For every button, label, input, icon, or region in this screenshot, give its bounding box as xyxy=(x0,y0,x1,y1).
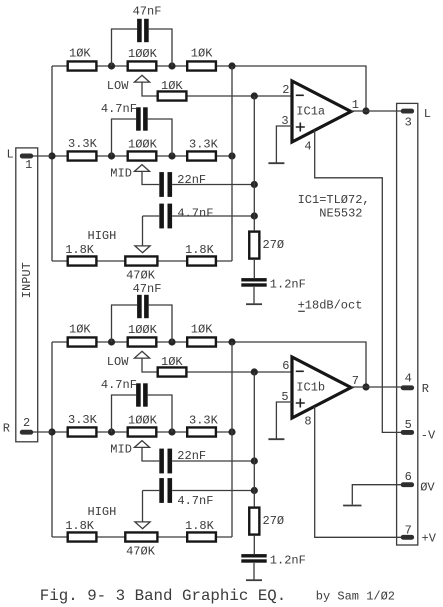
svg-text:1ØK: 1ØK xyxy=(161,79,183,93)
resistor 3.3K MID left xyxy=(68,427,97,436)
ground xyxy=(268,438,284,440)
capacitor 1.2nF xyxy=(241,554,266,557)
svg-text:3: 3 xyxy=(405,115,412,129)
wire: 4.7nF right xyxy=(148,119,172,156)
svg-text:3.3K: 3.3K xyxy=(68,413,98,427)
svg-text:3.3K: 3.3K xyxy=(189,137,219,151)
node: LOW row / bus1 xyxy=(228,338,235,345)
svg-text:1: 1 xyxy=(352,98,359,112)
svg-text:2: 2 xyxy=(282,83,289,97)
MID pot wiper arrow xyxy=(134,165,149,172)
svg-text:NE5532: NE5532 xyxy=(319,206,362,220)
wire: HIGH row xyxy=(52,536,232,538)
resistor 10K feedback xyxy=(158,367,187,376)
ground 0V xyxy=(343,505,361,507)
HIGH pot wiper arrow xyxy=(135,522,150,529)
ground xyxy=(246,579,262,581)
pot 470K HIGH xyxy=(125,532,157,541)
svg-text:4.7nF: 4.7nF xyxy=(177,494,213,508)
op-amp IC1b xyxy=(292,357,351,418)
wire: MID wiper to 22nF xyxy=(142,447,159,461)
wire: output to connector xyxy=(351,386,401,388)
svg-text:1ØØK: 1ØØK xyxy=(128,138,158,152)
node: input pin / bus xyxy=(48,428,55,435)
svg-text:ØV: ØV xyxy=(420,480,435,494)
node: LOW pot right xyxy=(168,62,175,69)
resistor 10K LOW right xyxy=(187,61,216,70)
wire: wiper to inverting input xyxy=(142,358,292,372)
node: MID row / bus1 xyxy=(228,428,235,435)
svg-text:LOW: LOW xyxy=(107,79,129,93)
svg-text:47ØK: 47ØK xyxy=(126,545,156,559)
capacitor 22nF xyxy=(159,449,164,474)
wire: HIGH wiper stem xyxy=(142,491,144,523)
node: MID pot left xyxy=(108,428,115,435)
wire: non-inv input to ground xyxy=(276,402,292,439)
capacitor 22nF xyxy=(159,172,164,197)
svg-text:1ØK: 1ØK xyxy=(191,322,213,336)
pot 100K MID xyxy=(128,151,157,160)
wire: pin1 to bus xyxy=(33,155,52,157)
wire: 47nF left xyxy=(112,29,138,66)
node: LOW pot right xyxy=(168,338,175,345)
non-inverting mark xyxy=(296,399,305,408)
svg-text:4.7nF: 4.7nF xyxy=(177,206,213,220)
node: LOW row / bus1 xyxy=(228,62,235,69)
LOW pot wiper arrow xyxy=(134,351,149,358)
wire: HIGH row xyxy=(52,260,232,262)
pot 470K HIGH xyxy=(125,256,157,265)
svg-text:HIGH: HIGH xyxy=(88,505,117,519)
svg-text:5: 5 xyxy=(405,418,412,432)
wire: 4.7nF to bus2 xyxy=(172,490,254,492)
capacitor 47nF xyxy=(137,19,142,42)
resistor 1.8K HIGH left xyxy=(68,532,97,541)
svg-text:1: 1 xyxy=(25,158,32,172)
svg-text:4.7nF: 4.7nF xyxy=(101,378,137,392)
wire: 4.7nF left xyxy=(112,119,137,156)
svg-text:1ØK: 1ØK xyxy=(191,46,213,60)
node: virtual-ground bus2 top xyxy=(251,92,258,99)
resistor 3.3K MID left xyxy=(68,151,97,160)
capacitor 47nF xyxy=(137,295,142,318)
pin 4 (R out) xyxy=(401,385,414,390)
wire: IC1a pin4 (V-) down to -V pin xyxy=(315,130,401,432)
svg-text:22nF: 22nF xyxy=(177,173,206,187)
svg-text:by Sam 1/Ø2: by Sam 1/Ø2 xyxy=(316,590,395,604)
node: LOW pot left xyxy=(108,338,115,345)
svg-text:1.8K: 1.8K xyxy=(65,243,95,257)
pin 2 (R in) xyxy=(20,430,33,435)
capacitor 4.7nF HIGH xyxy=(159,478,164,503)
svg-text:1ØK: 1ØK xyxy=(161,355,183,369)
svg-text:7: 7 xyxy=(352,374,359,388)
svg-text:IC1=TLØ72,: IC1=TLØ72, xyxy=(298,193,370,207)
resistor 3.3K MID right xyxy=(187,427,216,436)
svg-text:HIGH: HIGH xyxy=(88,229,117,243)
resistor 10K feedback xyxy=(158,91,187,100)
capacitor 4.7nF HIGH xyxy=(159,204,164,229)
pin 1 (L in) xyxy=(20,154,33,159)
wire: HIGH wiper to 4.7nF xyxy=(143,215,160,217)
svg-text:LOW: LOW xyxy=(107,355,129,369)
node: IC1a output xyxy=(362,107,369,114)
resistor 10K LOW left (ch b) xyxy=(68,337,97,346)
svg-text:R: R xyxy=(3,422,10,436)
pot 100K MID xyxy=(128,427,157,436)
svg-text:Fig. 9- 3 Band Graphic EQ.: Fig. 9- 3 Band Graphic EQ. xyxy=(40,587,286,605)
resistor 10K LOW right xyxy=(187,337,216,346)
pin 3 (L out) xyxy=(401,109,414,114)
svg-text:L: L xyxy=(424,107,431,121)
svg-text:47ØK: 47ØK xyxy=(126,269,156,283)
svg-text:1ØØK: 1ØØK xyxy=(128,414,158,428)
wire: 22nF to bus2 xyxy=(172,184,254,186)
node: IC1b output xyxy=(362,383,369,390)
pin 6 (0V) xyxy=(401,482,414,487)
svg-text:4.7nF: 4.7nF xyxy=(101,102,137,116)
op-amp IC1a xyxy=(292,81,351,142)
svg-text:1ØØK: 1ØØK xyxy=(128,47,158,61)
node: 22nF / bus2 xyxy=(251,181,258,188)
svg-text:IC1b: IC1b xyxy=(296,381,325,395)
wire: 22nF to bus2 xyxy=(172,460,254,462)
connector J1 INPUT box xyxy=(16,148,38,442)
wire: HIGH wiper stem xyxy=(142,216,144,246)
LOW pot wiper arrow xyxy=(134,75,149,82)
svg-text:47nF: 47nF xyxy=(133,282,162,296)
resistor 3.3K MID right xyxy=(187,151,216,160)
svg-text:1.8K: 1.8K xyxy=(65,519,95,533)
node: MID pot left xyxy=(108,152,115,159)
pot 100K LOW xyxy=(128,61,157,70)
svg-text:IC1a: IC1a xyxy=(296,105,325,119)
wire: wiper to inverting input xyxy=(142,82,292,96)
wire: bus1 (band right ends) xyxy=(231,66,233,261)
svg-text:-V: -V xyxy=(421,428,436,442)
svg-text:1ØØK: 1ØØK xyxy=(128,323,158,337)
resistor 1.8K HIGH left xyxy=(68,256,97,265)
inverting mark xyxy=(296,94,304,96)
svg-text:+18dB/oct: +18dB/oct xyxy=(298,299,363,313)
svg-text:6: 6 xyxy=(282,359,289,373)
svg-text:2: 2 xyxy=(23,416,30,430)
svg-text:22nF: 22nF xyxy=(177,449,206,463)
connector J2 output box xyxy=(397,103,418,545)
wire: input bus xyxy=(51,66,53,261)
svg-text:3.3K: 3.3K xyxy=(68,137,98,151)
wire: bus2 vertical xyxy=(253,96,255,230)
svg-text:INPUT: INPUT xyxy=(20,262,34,298)
svg-text:1.8K: 1.8K xyxy=(185,519,215,533)
wire: input bus xyxy=(51,342,53,537)
wire xyxy=(253,563,255,580)
ground xyxy=(246,303,262,305)
wire: MID wiper to 22nF xyxy=(142,171,159,184)
pin 7 (+V) xyxy=(401,535,414,540)
svg-text:MID: MID xyxy=(110,166,132,180)
svg-text:4: 4 xyxy=(304,139,311,153)
wire: HIGH wiper to 4.7nF xyxy=(143,490,160,492)
resistor 1.8K HIGH right xyxy=(187,532,216,541)
node: MID pot right xyxy=(168,428,175,435)
svg-text:MID: MID xyxy=(110,442,132,456)
wire: 4.7nF to bus2 xyxy=(172,215,254,217)
wire: 4.7nF left xyxy=(112,395,137,432)
svg-text:3.3K: 3.3K xyxy=(189,413,219,427)
node: MID row / bus1 xyxy=(228,152,235,159)
capacitor 4.7nF xyxy=(136,107,141,130)
ground xyxy=(268,162,284,164)
wire xyxy=(253,536,255,554)
wire: IC1b pin8 (V+) down to +V pin xyxy=(315,407,401,538)
non-inverting mark xyxy=(296,123,305,132)
wire: LOW row to IC1b output feedback xyxy=(52,342,366,387)
node: virtual-ground bus2 top xyxy=(251,368,258,375)
wire: 47nF left xyxy=(112,305,138,342)
wire: 0V to ground xyxy=(352,485,401,505)
capacitor 4.7nF xyxy=(136,383,141,406)
wire: bus2 vertical xyxy=(253,372,255,506)
svg-text:6: 6 xyxy=(405,470,412,484)
wire: non-inv input to ground xyxy=(276,126,292,163)
wire: 47nF right xyxy=(149,305,172,342)
node: 22nF / bus2 xyxy=(251,457,258,464)
svg-text:27Ø: 27Ø xyxy=(263,238,285,252)
node: input pin / bus xyxy=(48,152,55,159)
resistor 270 xyxy=(249,508,259,535)
svg-text:1.2nF: 1.2nF xyxy=(270,277,306,291)
node: MID pot right xyxy=(168,152,175,159)
svg-text:L: L xyxy=(7,147,14,161)
svg-text:27Ø: 27Ø xyxy=(263,514,285,528)
node: LOW pot left xyxy=(108,62,115,69)
wire: LOW row to IC1a output feedback xyxy=(52,66,366,111)
svg-text:+V: +V xyxy=(422,532,437,546)
wire xyxy=(253,260,255,278)
HIGH pot wiper arrow xyxy=(135,246,150,253)
pin 5 (-V) xyxy=(401,430,414,435)
svg-text:8: 8 xyxy=(304,415,311,429)
svg-text:1ØK: 1ØK xyxy=(69,323,91,337)
MID pot wiper arrow xyxy=(134,441,149,448)
pot 100K LOW xyxy=(128,337,157,346)
svg-text:7: 7 xyxy=(405,523,412,537)
wire: MID row xyxy=(52,155,232,157)
wire: output to connector xyxy=(351,110,401,112)
svg-text:R: R xyxy=(422,382,429,396)
resistor 10K LOW left (ch a) xyxy=(68,61,97,70)
svg-text:1.2nF: 1.2nF xyxy=(270,554,306,568)
wire: bus1 (band right ends) xyxy=(231,342,233,537)
capacitor 1.2nF xyxy=(241,278,266,281)
wire: 4.7nF right xyxy=(148,395,172,432)
wire xyxy=(253,287,255,304)
wire: MID row xyxy=(52,431,232,433)
svg-text:47nF: 47nF xyxy=(133,5,162,19)
svg-text:1ØK: 1ØK xyxy=(69,47,91,61)
wire: 47nF right xyxy=(149,29,172,66)
node: 4.7nF / bus2 xyxy=(251,487,258,494)
svg-text:4: 4 xyxy=(405,371,412,385)
inverting mark xyxy=(296,370,304,372)
resistor 270 xyxy=(249,232,259,259)
node: 4.7nF / bus2 xyxy=(251,212,258,219)
resistor 1.8K HIGH right xyxy=(187,256,216,265)
svg-text:1.8K: 1.8K xyxy=(185,243,215,257)
wire: pin2 to bus xyxy=(33,431,52,433)
